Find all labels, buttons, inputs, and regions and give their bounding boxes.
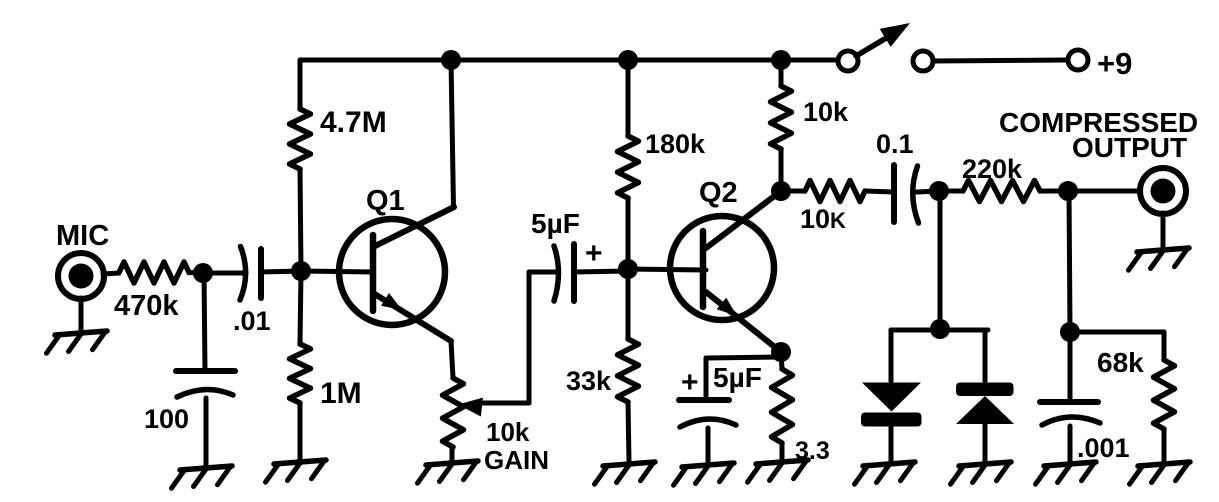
wire output jack stem [1161, 213, 1166, 248]
svg-text:470k: 470k [114, 290, 179, 322]
label 180k [645, 129, 706, 159]
potentiometer 10k GAIN wiper [458, 398, 529, 417]
switch S1 throw terminal [913, 51, 933, 71]
ground .001 [1036, 462, 1097, 484]
node rail-10k junction [771, 50, 791, 70]
label 4.7M [320, 106, 387, 139]
svg-text:.001: .001 [1077, 433, 1130, 463]
ground 5uF emitter [674, 463, 735, 485]
label 33k [566, 366, 612, 396]
wire emitter node to 3.3 [781, 352, 782, 369]
node D [929, 181, 949, 201]
label .001 [1077, 433, 1130, 463]
diode D1 [861, 383, 922, 427]
wire node B to Q1 base [301, 271, 373, 272]
wire node A to .01 cap [203, 271, 246, 276]
capacitor .01 straight plate [258, 249, 264, 298]
wire collector node to 10k [781, 189, 805, 194]
wire switch to +9 [933, 60, 1068, 61]
svg-text:68k: 68k [1097, 347, 1144, 378]
svg-text:5µF: 5µF [531, 208, 580, 239]
label +9 [1097, 46, 1132, 81]
wire .001 to ground [1068, 426, 1073, 462]
capacitor 0.1 straight plate [891, 165, 897, 222]
label Q1 [366, 185, 405, 217]
capacitor .001 straight plate [1040, 399, 1098, 405]
label 1M [320, 377, 362, 410]
svg-text:10k: 10k [486, 417, 530, 447]
node rail-180k junction [618, 50, 638, 70]
ground D2 [951, 462, 1012, 484]
label 220k [962, 154, 1023, 184]
resistor 220k [963, 181, 1040, 202]
wire 68k to ground [1162, 429, 1167, 462]
wire node E down [1069, 191, 1070, 331]
ground D1 [855, 462, 916, 484]
wire D2 to ground [983, 424, 988, 462]
label 10k (gain) [486, 417, 530, 447]
wire 180k to node C [626, 198, 631, 268]
node B Q1 base [291, 261, 311, 281]
wire .01 to node B [261, 271, 301, 272]
ground mic jack [47, 331, 108, 353]
svg-text:5µF: 5µF [713, 362, 762, 393]
node A [193, 263, 213, 283]
svg-text:+: + [681, 366, 699, 399]
capacitor 5uF coupling curved plate [554, 246, 559, 301]
diode D2 [956, 383, 1014, 425]
wire wiper to 5uF cap [529, 272, 558, 403]
transistor Q2 [670, 216, 774, 320]
capacitor 0.1 curved plate [913, 166, 919, 223]
node C Q2 base [618, 259, 638, 279]
svg-text:33k: 33k [566, 366, 612, 396]
label 68k [1097, 347, 1144, 378]
wire node C to Q2 base [628, 269, 706, 270]
svg-text:Q1: Q1 [366, 185, 405, 217]
capacitor 100 top plate [176, 368, 235, 374]
node Q2 collector [771, 181, 791, 201]
transistor Q1 [339, 219, 445, 325]
wire node F to .001 [1068, 332, 1073, 402]
ground 1M [266, 460, 327, 482]
label 10k (series) [800, 204, 846, 234]
resistor 1M [290, 344, 311, 403]
switch S1 blade [856, 23, 910, 56]
wire Q1 emitter [373, 293, 453, 378]
wire 1M to ground [298, 403, 303, 460]
wire node C to 33k [626, 269, 631, 339]
ground 68k [1130, 462, 1191, 484]
wire 100 cap to ground [204, 398, 209, 466]
+9 terminal [1068, 50, 1088, 70]
label MIC [56, 220, 109, 252]
svg-text:+9: +9 [1097, 46, 1132, 81]
svg-text:100: 100 [144, 404, 189, 434]
wire rail corner to 4.7M [298, 60, 303, 109]
wire node D down [938, 191, 943, 328]
wire 0.1 to node D [917, 191, 939, 192]
resistor 3.3 [772, 369, 793, 443]
wire node B to 1M [300, 271, 301, 344]
jack J2 compressed output [1140, 168, 1186, 214]
wire rail to 180k [626, 60, 631, 136]
wire 10k to collector node [779, 149, 784, 191]
label Q2 [699, 177, 738, 209]
svg-text:OUTPUT: OUTPUT [1072, 132, 1187, 163]
wire 10k to 0.1 cap [865, 191, 894, 192]
wire D1 to ground [889, 426, 894, 462]
svg-text:+: + [585, 237, 603, 270]
resistor 10k (series) [805, 181, 865, 202]
wire node E to jack [1068, 189, 1140, 194]
label + (emitter cap) [681, 366, 699, 399]
wire mic jack stem [79, 298, 84, 330]
label OUTPUT [1072, 132, 1187, 163]
resistor 68k [1154, 360, 1175, 429]
wire F tee [1070, 332, 1164, 360]
wire Q1 collector [373, 60, 454, 247]
label 3.3 [795, 437, 830, 465]
ground 100 cap [172, 466, 233, 488]
wire jack to 470k [103, 273, 119, 274]
label 0.1 [876, 129, 914, 159]
ground gain pot [418, 461, 479, 483]
svg-text:10k: 10k [803, 97, 849, 127]
label 5uF [531, 208, 580, 239]
wire emitter node left [706, 357, 781, 400]
resistor 470k [119, 262, 189, 283]
ground 33k [595, 462, 656, 484]
wire node D to 220k [939, 189, 963, 194]
wire 33k to ground [628, 402, 629, 462]
capacitor .001 curved plate [1042, 417, 1100, 425]
svg-text:1M: 1M [320, 377, 362, 410]
label GAIN [484, 445, 549, 475]
capacitor 100 curved plate [177, 389, 233, 397]
node rail-Q1 collector junction [441, 50, 461, 70]
resistor 10k (collector) [771, 86, 792, 149]
wire 3.3 to ground [780, 443, 785, 460]
potentiometer 10k GAIN element [443, 378, 464, 447]
svg-text:0.1: 0.1 [876, 129, 914, 159]
svg-text:4.7M: 4.7M [320, 106, 387, 139]
resistor 4.7M [290, 109, 311, 169]
label 100 [144, 404, 189, 434]
jack J1 MIC input [58, 253, 104, 299]
svg-text:220k: 220k [962, 154, 1023, 184]
label + (coupling cap) [585, 237, 603, 270]
label 470k [114, 290, 179, 322]
wire 220k to node E [1040, 189, 1068, 194]
svg-text:.01: .01 [233, 306, 271, 336]
node Q2 emitter [771, 342, 791, 362]
wire 470k to node A [189, 270, 203, 276]
wire rail to 10k [779, 60, 784, 86]
ground output jack [1129, 248, 1190, 270]
svg-text:MIC: MIC [56, 220, 109, 252]
wire 4.7M to node B [300, 169, 301, 271]
capacitor 5uF coupling straight plate [571, 244, 577, 301]
node diode junction [930, 319, 950, 339]
wire +9 supply rail [300, 58, 848, 63]
resistor 33k [618, 339, 639, 402]
node E [1058, 181, 1078, 201]
wire Q2 emitter [706, 292, 781, 352]
svg-text:180k: 180k [645, 129, 706, 159]
wire node A down to 100 cap [204, 273, 205, 371]
wire 5uF to node C [574, 271, 628, 272]
wire pot to ground [450, 447, 455, 461]
resistor 180k [618, 136, 639, 198]
wire 5uF emitter to ground [706, 428, 711, 463]
node F [1060, 322, 1080, 342]
ground 3.3 [748, 460, 809, 482]
wire Q2 collector [706, 191, 781, 248]
capacitor 5uF emitter top plate [679, 397, 729, 403]
svg-text:Q2: Q2 [699, 177, 738, 209]
label 5uF (emitter) [713, 362, 762, 393]
switch S1 pole terminal [838, 51, 858, 71]
capacitor 5uF emitter curved plate [680, 419, 736, 427]
label 10k (collector) [803, 97, 849, 127]
capacitor .01 curved plate [240, 247, 246, 301]
label .01 [233, 306, 271, 336]
svg-text:GAIN: GAIN [484, 445, 549, 475]
label COMPRESSED [999, 107, 1198, 138]
svg-text:10K: 10K [800, 204, 846, 234]
wire diode tee [891, 330, 988, 381]
